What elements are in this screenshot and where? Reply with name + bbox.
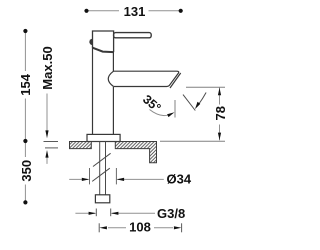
- extension line deck top right: [160, 140, 225, 142]
- Max.50 leader with down arrow: [46, 94, 48, 164]
- stream V right curved arrow: [199, 93, 207, 105]
- spout tip second line: [170, 73, 181, 88]
- base flange: [87, 134, 120, 141]
- svg-text:154: 154: [18, 73, 33, 95]
- svg-text:108: 108: [129, 220, 151, 235]
- svg-text:78: 78: [213, 106, 228, 120]
- supply nut: [95, 195, 109, 203]
- body right edge upper: [112, 52, 114, 71]
- deck right band with corner leg: [115, 142, 156, 163]
- svg-text:131: 131: [124, 4, 146, 19]
- svg-text:350: 350: [19, 160, 34, 182]
- break diagonal upper: [93, 153, 111, 166]
- faucet head block: [93, 31, 114, 52]
- break diagonal lower: [92, 168, 110, 181]
- svg-text:Ø34: Ø34: [167, 172, 192, 187]
- svg-text:G3/8: G3/8: [157, 206, 185, 221]
- lever handle: [114, 33, 152, 38]
- extension line spout outlet: [186, 86, 225, 88]
- dim 108: [99, 223, 181, 232]
- 35 deg vertical reference line: [174, 100, 176, 118]
- 35 deg leader arc with arrow: [150, 110, 171, 116]
- dim G3/8: [75, 209, 155, 217]
- svg-text:Max.50: Max.50: [40, 46, 55, 89]
- deck left band: [70, 142, 92, 149]
- head left bump: [89, 39, 92, 45]
- spout: [108, 71, 180, 88]
- body right edge lower: [112, 87, 114, 134]
- deck top line: [70, 141, 157, 143]
- dim 78 vertical: [219, 88, 221, 141]
- shank: [100, 142, 106, 195]
- body left edge: [92, 47, 94, 135]
- stream V left stroke: [183, 95, 195, 111]
- dimension 131 line: [84, 9, 182, 13]
- left dimension line (154/350): [23, 29, 27, 205]
- Max.50 extension ticks: [44, 142, 59, 148]
- dim Ø34: [69, 168, 164, 184]
